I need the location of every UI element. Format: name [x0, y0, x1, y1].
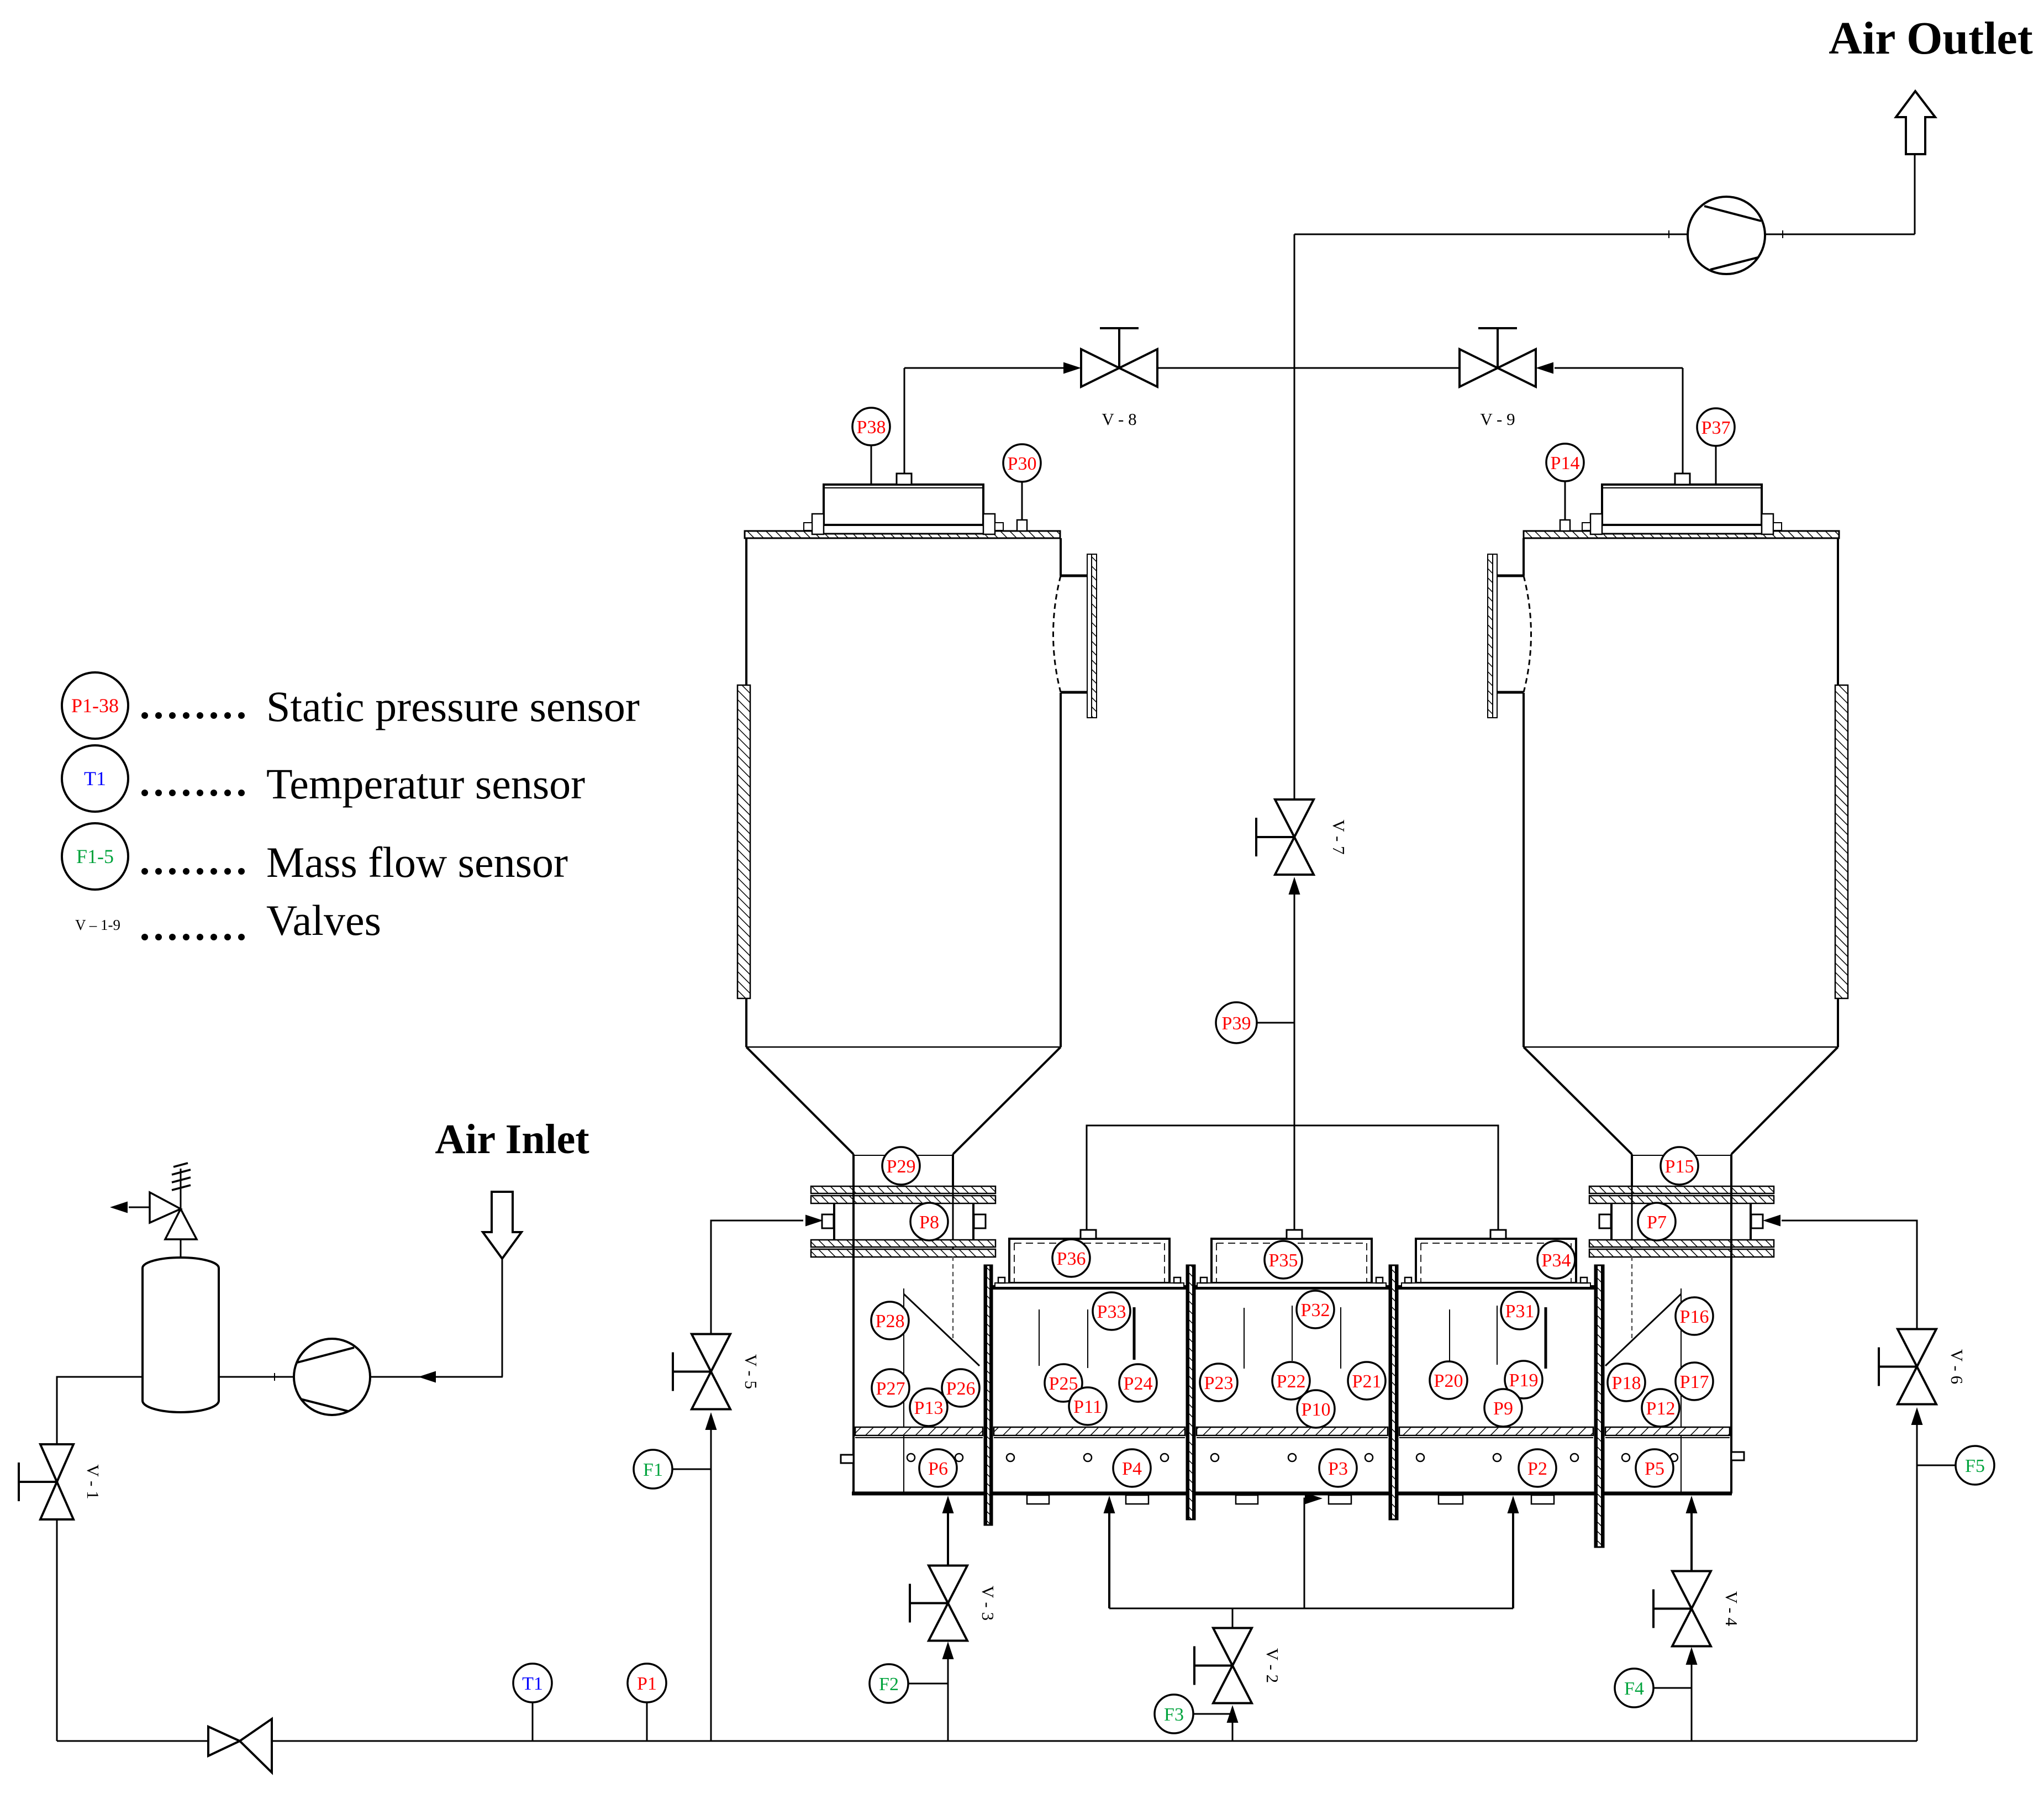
- wire F2 stem: [908, 1683, 948, 1685]
- sensor P7: [1638, 1203, 1676, 1240]
- svg-text:P33: P33: [1097, 1302, 1126, 1322]
- sensor P24: [1119, 1364, 1157, 1402]
- svg-text:P26: P26: [946, 1379, 976, 1399]
- sensor P34: [1537, 1241, 1575, 1279]
- right vessel right wall hatched strip: [1835, 685, 1848, 998]
- arrow into V-3: [942, 1642, 954, 1659]
- left vessel left wall hatched strip: [737, 685, 750, 998]
- arrow into V-7 bottom: [1289, 877, 1300, 895]
- legend row4 dots: [141, 934, 245, 940]
- left box deflector: [904, 1294, 979, 1366]
- sensor P12: [1642, 1389, 1679, 1427]
- sensor P39: [1216, 1002, 1257, 1043]
- arrow manifold right riser: [1508, 1496, 1519, 1513]
- sensor P25: [1045, 1364, 1082, 1402]
- bed foot 6: [1531, 1495, 1554, 1504]
- wire bottom manifold: [1109, 1608, 1513, 1609]
- sensor T1: [513, 1664, 552, 1702]
- distributor plate section 4: [1399, 1427, 1593, 1435]
- left vessel cap: [804, 485, 1003, 534]
- wire V-5 upper: [711, 1221, 803, 1334]
- wire V-6 upper: [1782, 1221, 1917, 1329]
- sensor P6: [919, 1449, 957, 1487]
- wire P39 stem: [1255, 1022, 1294, 1024]
- sensor P20: [1430, 1361, 1467, 1399]
- sensor P26: [942, 1369, 979, 1407]
- right vessel body walls: [1837, 538, 1839, 686]
- wire left cap riser: [904, 368, 905, 474]
- arrow into V-4: [1686, 1647, 1698, 1665]
- svg-text:V - 4: V - 4: [1722, 1591, 1741, 1627]
- left vessel body walls: [745, 538, 747, 686]
- svg-text:T1: T1: [84, 767, 106, 790]
- chamber 3 cap: [1402, 1239, 1590, 1287]
- P14 nub: [1560, 520, 1570, 531]
- right box downcomer dashed wall: [1631, 1256, 1633, 1342]
- arrow into blower: [418, 1371, 436, 1383]
- left box outer tab: [841, 1455, 854, 1463]
- wire V-5 riser: [710, 1417, 712, 1741]
- svg-text:Mass flow sensor: Mass flow sensor: [266, 838, 568, 886]
- wire arrow line into right spool: [1782, 1220, 1917, 1222]
- svg-text:P10: P10: [1302, 1400, 1331, 1420]
- valve V - 7: [1256, 799, 1348, 875]
- wire P30 stem: [1021, 482, 1023, 520]
- wire P1 stem: [646, 1702, 648, 1741]
- sensor P10: [1297, 1390, 1335, 1428]
- wire between V-8 and V-9: [1157, 367, 1460, 369]
- wire T1 stem: [532, 1702, 534, 1741]
- svg-text:P38: P38: [857, 417, 886, 438]
- chamber 1 probes: [1039, 1307, 1134, 1368]
- distributor plate section 1: [855, 1427, 983, 1435]
- pipe tick marks on fan line: [1669, 230, 1783, 238]
- svg-text:P9: P9: [1493, 1398, 1513, 1419]
- svg-text:P3: P3: [1328, 1459, 1348, 1479]
- svg-text:P28: P28: [876, 1311, 905, 1332]
- legend row1 dots: [141, 712, 245, 719]
- distributor plate section 3: [1197, 1427, 1388, 1435]
- wire manifold middle riser: [1304, 1498, 1308, 1608]
- right vessel cap flange band: [1594, 525, 1767, 534]
- svg-text:P5: P5: [1645, 1459, 1664, 1479]
- wire bottom main line left: [57, 1740, 208, 1742]
- left box walls: [852, 1186, 855, 1493]
- sensor P23: [1200, 1364, 1237, 1401]
- right spool flange pair lower: [1589, 1240, 1774, 1247]
- sensor P18: [1608, 1364, 1645, 1401]
- valve V - 9: [1460, 328, 1536, 429]
- svg-text:P8: P8: [919, 1212, 939, 1233]
- right vessel cap nub: [1675, 474, 1690, 485]
- svg-text:Air Outlet: Air Outlet: [1829, 13, 2032, 64]
- wire F3 stem: [1193, 1713, 1232, 1715]
- wire V-7 lower line: [1294, 884, 1295, 1230]
- arrow into V-6: [1911, 1407, 1923, 1425]
- valve V - 2: [1194, 1628, 1282, 1703]
- wire fan discharge line: [1294, 234, 1688, 235]
- wire inlet vertical: [502, 1259, 503, 1377]
- wire right cap riser: [1682, 368, 1684, 474]
- wire V-1 drop: [56, 1521, 58, 1741]
- sensor F4: [1615, 1669, 1653, 1707]
- sensor P1: [628, 1664, 666, 1702]
- sensor P38: [852, 408, 890, 445]
- left vessel cone: [746, 1046, 1061, 1048]
- svg-text:V - 6: V - 6: [1947, 1349, 1967, 1384]
- sensor P36: [1052, 1239, 1090, 1277]
- svg-text:F1: F1: [643, 1460, 663, 1480]
- legend: mass flow sensor symbol: [62, 823, 128, 890]
- valve V - 5: [673, 1334, 761, 1409]
- svg-text:P37: P37: [1701, 418, 1731, 438]
- left box downcomer dashed wall: [952, 1256, 954, 1342]
- sensor P31: [1501, 1292, 1539, 1329]
- wire V8-V9 header left segment: [904, 367, 1079, 369]
- fan/blower outlet: [1688, 197, 1765, 274]
- chamber 3 probes: [1450, 1306, 1546, 1369]
- left vessel cap flange band: [818, 525, 991, 534]
- svg-text:P1: P1: [637, 1674, 657, 1694]
- air outlet arrow symbol: [1896, 91, 1935, 154]
- left spool flange pair lower: [811, 1240, 995, 1247]
- wire F4 stem: [1653, 1687, 1692, 1689]
- sensor P37: [1697, 408, 1735, 446]
- partition wall 4: [1595, 1265, 1604, 1547]
- wire V-4 riser: [1691, 1652, 1693, 1741]
- sensor P22: [1272, 1362, 1310, 1400]
- wire V-1 to tank: [57, 1377, 142, 1443]
- wire P38 stem: [871, 445, 872, 485]
- sensor P5: [1636, 1449, 1673, 1487]
- sensor F3: [1155, 1695, 1193, 1733]
- svg-text:V - 3: V - 3: [978, 1586, 998, 1621]
- svg-text:P20: P20: [1434, 1371, 1463, 1391]
- arrow manifold left riser: [1104, 1496, 1115, 1513]
- legend row2 dots: [141, 790, 245, 796]
- arrow into right spool: [1763, 1215, 1780, 1227]
- svg-text:P14: P14: [1551, 453, 1580, 474]
- wire relief vent line: [129, 1207, 150, 1208]
- left box inner vertical line: [903, 1288, 904, 1492]
- svg-text:P24: P24: [1124, 1374, 1153, 1394]
- arrow V-3 into bed: [942, 1496, 954, 1513]
- sensor P33: [1093, 1292, 1130, 1330]
- svg-text:P31: P31: [1505, 1301, 1535, 1322]
- sensor P29: [882, 1147, 920, 1185]
- bed foot 4: [1329, 1495, 1351, 1504]
- right box walls: [1730, 1186, 1732, 1493]
- right box inner vertical line: [1680, 1288, 1682, 1492]
- svg-text:P27: P27: [876, 1379, 905, 1399]
- svg-text:P17: P17: [1680, 1372, 1709, 1392]
- valve V - 4: [1653, 1571, 1741, 1647]
- partition wall 2: [1187, 1265, 1195, 1519]
- valve V - 6: [1879, 1329, 1967, 1405]
- sensor P15: [1661, 1147, 1698, 1185]
- svg-text:P29: P29: [887, 1156, 916, 1177]
- box bottom line: [852, 1492, 1732, 1496]
- right vessel top plate (hatched): [1524, 531, 1839, 538]
- svg-text:P1-38: P1-38: [71, 695, 119, 717]
- wire manifold to V-2: [1232, 1608, 1234, 1628]
- svg-text:P11: P11: [1073, 1397, 1102, 1417]
- left spool flange pair upper: [811, 1186, 995, 1193]
- svg-text:P36: P36: [1057, 1249, 1086, 1269]
- arrow into V-9: [1536, 362, 1553, 374]
- sensor P35: [1265, 1241, 1302, 1279]
- chamber 1 cap: [995, 1239, 1184, 1287]
- svg-text:P21: P21: [1352, 1371, 1382, 1392]
- sensor P32: [1297, 1291, 1334, 1328]
- plenum holes: [907, 1454, 1678, 1461]
- svg-text:P15: P15: [1665, 1156, 1694, 1177]
- svg-text:P6: P6: [928, 1459, 948, 1479]
- wire blower to inlet: [370, 1376, 503, 1378]
- right box outer tab: [1731, 1452, 1744, 1460]
- sensor P13: [910, 1388, 947, 1426]
- svg-text:Static pressure sensor: Static pressure sensor: [266, 682, 640, 730]
- svg-text:P12: P12: [1646, 1398, 1676, 1419]
- left spool body: [834, 1186, 973, 1256]
- arrow manifold middle: [1305, 1493, 1323, 1505]
- wire V-7 upper line: [1294, 234, 1295, 799]
- wire arrow line into left spool: [711, 1220, 803, 1222]
- legend: static pressure sensor symbol: [62, 672, 128, 739]
- svg-text:P23: P23: [1204, 1373, 1234, 1393]
- partition wall 3: [1389, 1265, 1398, 1519]
- sensor P19: [1505, 1361, 1542, 1398]
- sensor P27: [872, 1369, 909, 1407]
- sensor P3: [1319, 1449, 1357, 1487]
- svg-text:P7: P7: [1647, 1212, 1667, 1233]
- chamber 2 probes: [1244, 1306, 1341, 1369]
- P30 nub: [1017, 520, 1027, 531]
- svg-text:F4: F4: [1624, 1679, 1644, 1699]
- wire manifold right riser: [1512, 1508, 1514, 1608]
- svg-text:F1-5: F1-5: [76, 845, 114, 867]
- partition wall 1: [984, 1265, 992, 1525]
- wire bottom main line right: [272, 1740, 1917, 1742]
- distributor plate section 2: [994, 1427, 1185, 1435]
- air inlet arrow symbol: [483, 1192, 521, 1259]
- legend: temperature sensor symbol: [62, 745, 128, 812]
- right spool side nubs: [1599, 1214, 1611, 1228]
- svg-text:F2: F2: [879, 1674, 899, 1695]
- wire V-3 upper: [947, 1502, 949, 1567]
- left vessel manhole bulge: [1053, 554, 1097, 718]
- wire tank to blower: [219, 1376, 294, 1378]
- svg-text:P32: P32: [1301, 1300, 1330, 1321]
- wire V-3 riser: [947, 1647, 949, 1741]
- pipe tick mark tank-blower: [274, 1373, 275, 1381]
- arrow into left spool: [805, 1215, 823, 1227]
- svg-text:V - 7: V - 7: [1329, 819, 1348, 854]
- svg-text:F3: F3: [1164, 1705, 1184, 1725]
- sensor F2: [870, 1664, 908, 1703]
- left spool side nubs: [822, 1214, 834, 1228]
- svg-text:P2: P2: [1527, 1459, 1547, 1479]
- svg-text:Air Inlet: Air Inlet: [435, 1116, 589, 1162]
- right spool flange pair upper: [1589, 1186, 1774, 1193]
- right box deflector: [1605, 1294, 1681, 1366]
- sensor F5: [1956, 1446, 1994, 1485]
- valve bottom-left (unlabeled): [208, 1719, 272, 1772]
- sensor P9: [1484, 1389, 1522, 1427]
- svg-text:P13: P13: [914, 1398, 944, 1418]
- right vessel manhole bulge: [1488, 554, 1531, 718]
- svg-text:P19: P19: [1509, 1370, 1539, 1391]
- fan/blower inlet: [294, 1339, 370, 1415]
- svg-text:V - 8: V - 8: [1102, 409, 1136, 429]
- sensor P8: [910, 1203, 948, 1240]
- arrow V-4 into bed: [1686, 1496, 1698, 1513]
- wire P37 stem: [1715, 446, 1717, 485]
- svg-text:F5: F5: [1965, 1456, 1985, 1476]
- left vessel cap nub: [897, 474, 912, 485]
- svg-text:P35: P35: [1269, 1250, 1298, 1271]
- svg-text:P39: P39: [1222, 1013, 1251, 1034]
- svg-text:P18: P18: [1612, 1373, 1641, 1393]
- svg-text:V – 1-9: V – 1-9: [75, 917, 120, 933]
- chamber 2 cap: [1197, 1239, 1386, 1287]
- valve V - 1: [19, 1444, 103, 1519]
- wire P14 stem: [1564, 481, 1566, 520]
- bed foot 5: [1439, 1495, 1463, 1504]
- svg-text:P25: P25: [1049, 1374, 1078, 1394]
- buffer tank: [143, 1258, 219, 1412]
- relief valve on tank: [150, 1163, 197, 1258]
- right spool body: [1611, 1186, 1751, 1256]
- svg-text:Valves: Valves: [266, 896, 381, 944]
- svg-text:P22: P22: [1277, 1371, 1306, 1392]
- wire F5 stem: [1917, 1465, 1956, 1466]
- sensor P11: [1069, 1387, 1107, 1425]
- left vessel right wall: [1060, 538, 1062, 576]
- arrow relief vent: [110, 1202, 128, 1213]
- valve V - 8: [1081, 328, 1157, 429]
- sensor P28: [871, 1302, 909, 1339]
- chamber 2 cap nub: [1287, 1230, 1302, 1239]
- distributor plate section 5: [1605, 1427, 1730, 1435]
- arrow into V-2: [1227, 1705, 1239, 1723]
- bed top line: [984, 1285, 1600, 1290]
- svg-text:P16: P16: [1680, 1307, 1709, 1327]
- wire V-6 riser: [1916, 1412, 1918, 1741]
- right vessel cone: [1524, 1046, 1838, 1048]
- svg-text:V - 5: V - 5: [741, 1354, 761, 1389]
- wire V-2 riser: [1232, 1710, 1234, 1741]
- wire chamber cap bus: [1087, 1125, 1498, 1230]
- wire F1 stem: [672, 1469, 711, 1470]
- chamber 1 cap nub: [1081, 1230, 1096, 1239]
- sensor P30: [1003, 444, 1041, 482]
- chamber 3 cap nub: [1490, 1230, 1506, 1239]
- right vessel left wall: [1523, 538, 1525, 576]
- svg-text:P30: P30: [1008, 454, 1037, 474]
- svg-text:Temperatur sensor: Temperatur sensor: [266, 760, 585, 808]
- sensor P16: [1676, 1297, 1713, 1335]
- bed foot 3: [1236, 1495, 1258, 1504]
- svg-text:V - 2: V - 2: [1263, 1648, 1282, 1683]
- svg-text:P4: P4: [1122, 1459, 1142, 1479]
- bed foot 1: [1027, 1495, 1049, 1504]
- sensor F1: [634, 1450, 672, 1488]
- arrow into V-8: [1063, 362, 1081, 374]
- svg-text:V - 1: V - 1: [83, 1464, 103, 1499]
- wire V-4 upper: [1690, 1502, 1693, 1572]
- wire V-9 to right riser: [1555, 367, 1683, 369]
- wire manifold left riser: [1108, 1508, 1110, 1608]
- sensor P17: [1676, 1363, 1713, 1400]
- sensor P4: [1113, 1449, 1151, 1487]
- svg-text:V - 9: V - 9: [1480, 409, 1515, 429]
- svg-text:T1: T1: [522, 1674, 543, 1694]
- sensor P14: [1546, 444, 1584, 481]
- right vessel neck: [1631, 1154, 1633, 1186]
- valve V - 3: [910, 1566, 998, 1641]
- sensor P2: [1519, 1449, 1556, 1487]
- bed foot 2: [1126, 1495, 1149, 1504]
- right vessel cap: [1582, 485, 1782, 534]
- left vessel neck: [852, 1154, 855, 1186]
- sensor P21: [1348, 1362, 1386, 1400]
- left vessel top plate (hatched): [745, 531, 1060, 538]
- arrow into V-5: [705, 1412, 717, 1430]
- svg-text:P34: P34: [1542, 1250, 1571, 1271]
- legend row3 dots: [141, 868, 245, 875]
